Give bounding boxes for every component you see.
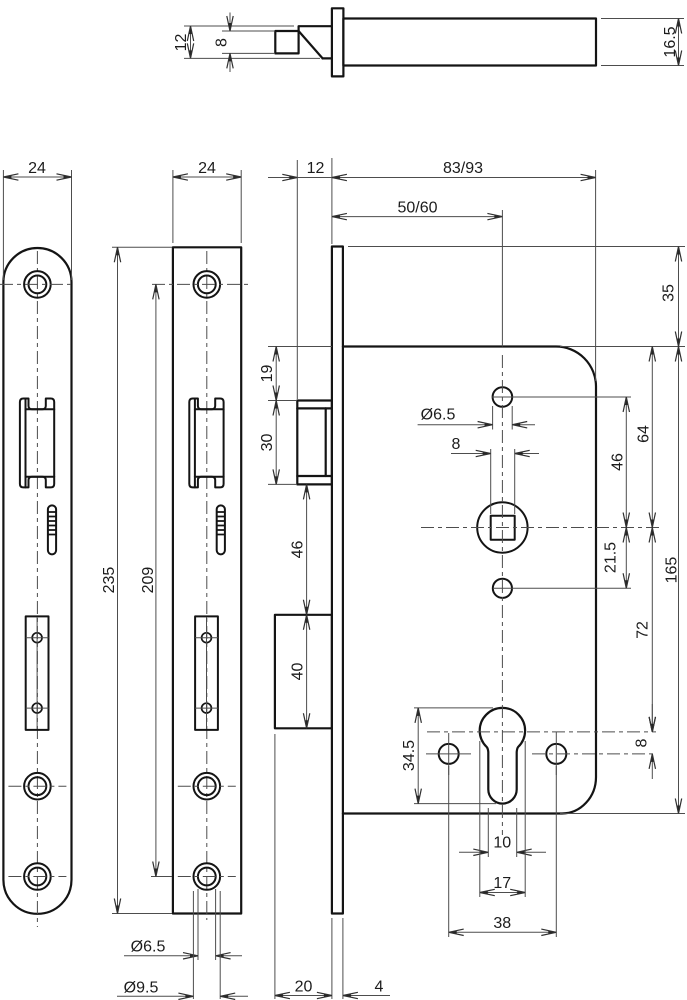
lower screw hole A xyxy=(194,773,221,800)
svg-text:12: 12 xyxy=(173,34,190,52)
extension lines hole dia 6.5 (faceplate 2) xyxy=(197,889,199,960)
svg-text:4: 4 xyxy=(375,979,384,996)
euro cylinder profile xyxy=(480,708,525,804)
dimension 10 xyxy=(459,851,488,853)
dimension 8 right side xyxy=(651,704,653,732)
latch cutout inner horizontals xyxy=(195,408,224,410)
faceplate 2 outline (square ends) xyxy=(173,247,241,913)
latch bottom edge (top view) xyxy=(323,57,332,59)
extension line case top xyxy=(268,346,332,348)
svg-text:16.5: 16.5 xyxy=(662,26,679,57)
dimension 72 xyxy=(651,528,653,732)
svg-text:50/60: 50/60 xyxy=(397,200,437,217)
main deadbolt (thrown) xyxy=(275,615,332,729)
latch cutout outer contour xyxy=(189,399,223,488)
top view: extension line latch head top xyxy=(222,30,274,32)
extension line faceplate top right xyxy=(348,246,685,248)
svg-text:83/93: 83/93 xyxy=(443,160,483,177)
svg-text:30: 30 xyxy=(259,434,276,452)
latch cutout inner horizontals xyxy=(26,408,55,410)
deadbolt keeper cutout rectangle xyxy=(26,616,49,730)
top view: extension line latch bottom xyxy=(184,57,320,59)
hub horizontal centerline xyxy=(421,527,660,529)
dimension 19 xyxy=(275,347,277,401)
svg-text:Ø6.5: Ø6.5 xyxy=(421,407,456,424)
extension lines 17 xyxy=(479,741,481,897)
vertical centerline main view xyxy=(501,210,503,347)
cylinder fixing hole right xyxy=(546,744,566,764)
dimension 8 square xyxy=(451,453,491,455)
extension lines dia 6.5 main xyxy=(492,406,494,430)
deadbolt keeper cutout rectangle xyxy=(195,616,218,730)
svg-text:10: 10 xyxy=(493,835,511,852)
latch top plate (top view) xyxy=(299,26,332,31)
extension line deadbolt front vertical xyxy=(274,734,276,999)
main latch bolt xyxy=(297,401,332,485)
faceplate 1 extension lines for 24 xyxy=(2,170,4,280)
extension line latch front vertical xyxy=(296,160,298,399)
faceplate 2 extension lines for 24 xyxy=(172,170,174,243)
extension line faceplate bottom for 235 xyxy=(112,913,172,915)
dimension 20 xyxy=(275,995,332,997)
dimension 21.5 xyxy=(625,528,627,589)
security pin hatch lines xyxy=(217,511,224,513)
lower screw hole A xyxy=(24,773,51,800)
dimension 50/60 xyxy=(332,216,503,218)
security pin capsule xyxy=(217,505,225,554)
faceplate 2 top screw hole xyxy=(194,271,221,298)
main faceplate edge view xyxy=(332,247,343,914)
latch head front block (top view) xyxy=(275,31,298,53)
svg-text:64: 64 xyxy=(635,425,652,443)
svg-text:20: 20 xyxy=(295,979,313,996)
svg-text:24: 24 xyxy=(28,160,46,177)
faceplate 1 outline (rounded ends) xyxy=(3,248,71,914)
dimension 16.5 (case thickness, top view) xyxy=(678,19,680,66)
lock case body (top view) xyxy=(343,19,596,66)
dimension dia 6.5 (faceplate 2) xyxy=(124,955,198,957)
extension lines 34.5 xyxy=(414,707,493,709)
keeper hole crosslines xyxy=(26,637,49,639)
dimension dia 6.5 main xyxy=(418,424,493,426)
svg-text:35: 35 xyxy=(661,284,678,302)
svg-text:40: 40 xyxy=(290,663,307,681)
faceplate 1 centerline xyxy=(36,251,38,927)
svg-text:46: 46 xyxy=(609,453,626,471)
latch cutout outer contour xyxy=(20,399,54,488)
lock case outline xyxy=(343,347,596,814)
spindle hub xyxy=(477,502,527,552)
extension line latch bottom left xyxy=(268,483,297,485)
extension line faceplate tops for 235 xyxy=(112,246,172,248)
security pin capsule xyxy=(48,505,56,554)
latch cutout inner bar edge xyxy=(25,399,27,488)
extension line lower hole horizontal xyxy=(493,587,631,589)
svg-text:17: 17 xyxy=(493,875,511,892)
svg-text:8: 8 xyxy=(452,436,461,453)
extension lines 8 square main xyxy=(490,449,492,514)
dimension 35 xyxy=(678,247,680,347)
lower fixing hole xyxy=(493,579,512,598)
svg-text:8: 8 xyxy=(634,738,651,747)
security pin hatch lines xyxy=(49,511,56,513)
dimension 165 xyxy=(678,347,680,814)
cylinder horizontal centerline xyxy=(427,731,656,733)
dimension 12 (latch width, top view) xyxy=(190,26,192,58)
svg-text:72: 72 xyxy=(634,621,651,639)
keeper screw holes xyxy=(32,633,42,643)
svg-text:165: 165 xyxy=(664,557,681,584)
extension lines case body right (top view) xyxy=(601,18,684,20)
extension line faceplate front vertical xyxy=(331,158,333,244)
dimension 24 (faceplate 1) xyxy=(3,176,71,178)
dimension 46 left side xyxy=(306,484,308,614)
faceplate 1 top screw hole xyxy=(24,271,51,298)
upper fixing hole dia 6.5 xyxy=(493,387,513,407)
svg-text:21.5: 21.5 xyxy=(602,542,619,573)
faceplate 2 top hole centerline xyxy=(152,283,251,285)
keeper hole crosslines xyxy=(195,637,218,639)
svg-text:235: 235 xyxy=(101,567,118,594)
extension line case bottom xyxy=(560,813,685,815)
dimension 46 right side xyxy=(625,397,627,528)
dimension 24 (faceplate 2) xyxy=(173,176,241,178)
dimension 4 xyxy=(343,995,390,997)
lower screw hole B xyxy=(194,863,221,890)
extension line latch top left xyxy=(268,400,297,402)
latch bevel diagonal (top view) xyxy=(299,31,323,58)
faceplate 1 top hole centerline xyxy=(0,283,75,285)
svg-text:24: 24 xyxy=(198,160,216,177)
dimension 30 xyxy=(275,401,277,485)
keeper screw holes xyxy=(202,633,212,643)
extension line for 209 bottom xyxy=(151,876,172,878)
cylinder fixing hole left xyxy=(439,744,459,764)
spindle square 8mm xyxy=(491,516,515,540)
svg-text:19: 19 xyxy=(259,365,276,383)
top view: extension line latch top xyxy=(184,25,294,27)
dimension 34.5 xyxy=(417,708,419,804)
latch cutout inner bar edge xyxy=(194,399,196,488)
svg-text:38: 38 xyxy=(493,915,511,932)
lower screw hole B xyxy=(24,863,51,890)
svg-text:34.5: 34.5 xyxy=(401,740,418,771)
extension line upper hole horizontal xyxy=(492,396,631,398)
svg-text:8: 8 xyxy=(214,38,231,47)
faceplate 2 centerline xyxy=(206,251,208,920)
top view: extension line latch head bottom xyxy=(222,52,274,54)
right fixing holes centerline xyxy=(532,753,656,755)
dimension 40 xyxy=(306,615,308,729)
svg-text:12: 12 xyxy=(307,160,325,177)
svg-text:46: 46 xyxy=(290,541,307,559)
dimension 64 xyxy=(651,347,653,528)
dimension 235 xyxy=(117,247,119,913)
svg-text:Ø6.5: Ø6.5 xyxy=(131,939,166,956)
dimension 17 xyxy=(480,892,525,894)
svg-text:209: 209 xyxy=(140,567,157,594)
dimension 209 xyxy=(155,284,157,876)
dimension 38 xyxy=(449,931,557,933)
dimension dia 9.5 (faceplate 2) xyxy=(117,995,193,997)
faceplate cross-section bar (top view) xyxy=(332,8,344,76)
extension lines hole dia 9.5 (faceplate 2) xyxy=(192,891,194,999)
dimension line top: 12 and 83/93 xyxy=(268,177,296,179)
extension lines faceplate bottom vertical xyxy=(331,918,333,999)
svg-text:Ø9.5: Ø9.5 xyxy=(124,980,159,997)
extension line case right edge vertical xyxy=(595,170,597,381)
extension lines 38 xyxy=(448,766,450,937)
dimension 8 (latch head, top view) xyxy=(229,13,231,32)
extension lines 10 xyxy=(487,808,489,857)
